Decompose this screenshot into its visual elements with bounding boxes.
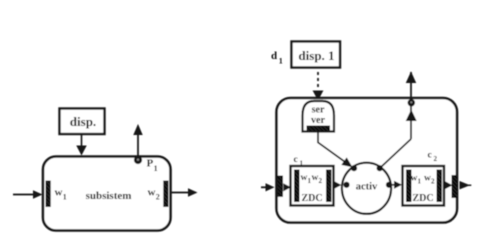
svg-text:2: 2 — [319, 177, 323, 185]
node activ left — [343, 182, 349, 188]
arrow ZDC1 to activ — [334, 181, 342, 189]
svg-text:disp.: disp. — [70, 114, 96, 129]
svg-text:w: w — [55, 187, 63, 199]
port bar ZDC2 left — [406, 170, 412, 203]
port bar on big system right edge — [452, 175, 458, 198]
port bar on big system left edge — [278, 176, 284, 197]
svg-text:P: P — [147, 158, 154, 170]
server dome — [303, 101, 335, 132]
junction node on vertical — [408, 99, 415, 106]
output arrow out of big system — [460, 181, 471, 189]
wire disp. to subsistem — [81, 134, 83, 147]
svg-text:c: c — [428, 151, 432, 161]
svg-text:1: 1 — [154, 164, 158, 173]
svg-text:2: 2 — [156, 193, 160, 202]
output arrow out of subsistem — [170, 192, 189, 194]
box disp. (left diagram dispatcher) — [60, 109, 105, 135]
port w1 (hatched bar on left edge) — [46, 181, 51, 208]
svg-text:subsistem: subsistem — [86, 190, 132, 202]
svg-text:w: w — [148, 187, 156, 199]
svg-text:d: d — [271, 50, 277, 62]
svg-text:ZDC: ZDC — [412, 193, 433, 204]
svg-text:1: 1 — [63, 193, 67, 202]
input arrow into subsistem — [13, 194, 34, 196]
svg-text:w: w — [312, 173, 319, 183]
svg-text:ser: ser — [312, 105, 325, 116]
svg-text:c: c — [294, 155, 298, 165]
arrowhead up inside — [406, 110, 417, 122]
arrowhead down onto server — [313, 91, 324, 101]
svg-text:ver: ver — [311, 115, 325, 126]
node activ top-right — [377, 165, 383, 171]
arrowhead into ZDC1 — [283, 183, 291, 191]
svg-text:w: w — [301, 173, 308, 183]
dashed wire disp.1 to server — [317, 72, 319, 90]
svg-text:ZDC: ZDC — [301, 193, 322, 204]
svg-text:w: w — [411, 174, 418, 184]
svg-text:1: 1 — [279, 57, 283, 66]
server port bar — [307, 126, 331, 132]
arrowhead up from P1 — [133, 124, 142, 135]
ellipse activ — [342, 163, 391, 214]
wire vertical up and out — [410, 72, 412, 139]
node activ right — [386, 182, 392, 188]
svg-text:2: 2 — [434, 155, 438, 163]
box ZDC 1 — [291, 166, 334, 206]
node P1 on top edge — [134, 156, 142, 164]
arrow ZDC2 to output port — [445, 181, 453, 189]
wire P1 up — [137, 135, 139, 157]
node activ top-left — [351, 165, 357, 171]
wire server to activ node — [318, 132, 350, 166]
port bar ZDC1 right — [326, 170, 332, 203]
arrowhead up outside — [406, 72, 416, 84]
box disp. 1 (right diagram dispatcher) — [292, 42, 341, 68]
box ZDC 2 — [403, 166, 445, 206]
port bar ZDC2 right — [437, 170, 443, 203]
arrow activ to ZDC2 — [392, 184, 394, 186]
svg-text:activ: activ — [356, 182, 378, 193]
svg-text:2: 2 — [431, 177, 435, 185]
wire activ top-right node to vertical — [380, 139, 411, 168]
block big system (right rounded rectangle) — [277, 98, 458, 223]
svg-text:w: w — [424, 174, 431, 184]
port bar ZDC1 left — [294, 170, 300, 203]
port w2 (hatched bar on right edge) — [163, 181, 168, 208]
svg-text:1: 1 — [418, 177, 422, 185]
arrowhead down into subsistem — [76, 146, 86, 156]
block subsistem — [43, 157, 171, 231]
svg-text:disp. 1: disp. 1 — [298, 48, 334, 63]
input arrow into big system — [261, 186, 267, 188]
arrowhead onto activ top-left node — [341, 157, 352, 167]
